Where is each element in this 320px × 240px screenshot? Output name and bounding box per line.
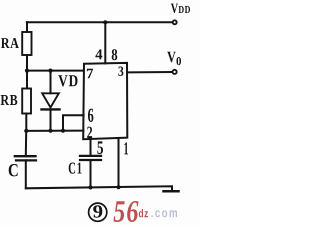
wire RB bottom lead: [25, 114, 27, 131]
pin 2: [87, 127, 92, 138]
figure number 9: [93, 205, 102, 217]
resistor RB body: [22, 89, 31, 114]
diode VD cathode bar: [42, 108, 60, 110]
watermark 56: [114, 201, 139, 222]
label RB: [1, 95, 18, 105]
terminal VDD: [173, 20, 177, 24]
label VDD V: [171, 4, 178, 13]
node junction C1 ground: [88, 185, 92, 189]
wire C top lead: [25, 131, 27, 156]
terminal V0: [173, 70, 177, 74]
op-amp U1 555 timer box: [83, 63, 127, 139]
watermark dz: [139, 209, 148, 217]
wire ground rail: [26, 186, 172, 191]
node junction diode cathode: [48, 129, 52, 133]
label VDD DD: [179, 6, 191, 13]
wire pin1 ground lead: [118, 138, 120, 187]
pin 3: [118, 67, 123, 77]
wire diode bottom lead: [50, 109, 52, 130]
diode VD triangle: [42, 93, 59, 107]
pin 1: [124, 142, 128, 154]
label C: [9, 164, 18, 176]
wire C1 bottom lead: [90, 160, 92, 187]
wire RA top lead: [26, 22, 28, 32]
wire jog to pin6: [63, 115, 84, 131]
wire pin5 lead: [90, 139, 92, 156]
node junction VDD rail: [103, 20, 107, 24]
label V0 0: [177, 57, 182, 65]
wire C bottom lead: [25, 160, 27, 188]
wire RB top lead: [26, 71, 28, 89]
wire VDD top rail: [27, 21, 173, 23]
pin 7: [87, 69, 93, 79]
label C1: [69, 163, 82, 174]
capacitor C1 bottom plate: [80, 159, 101, 161]
figure number circle: [89, 203, 107, 221]
capacitor C bottom plate: [16, 159, 36, 161]
resistor RA body: [22, 32, 31, 55]
pin 5: [97, 141, 103, 154]
capacitor C top plate: [15, 155, 36, 157]
label RA: [1, 38, 19, 48]
node junction RA-RB-pin7: [25, 69, 29, 73]
node junction diode anode: [48, 69, 52, 73]
ground bar: [164, 190, 179, 193]
node junction RB-C-pin2: [24, 129, 28, 133]
pin 8: [112, 49, 118, 60]
capacitor C1 top plate: [80, 155, 101, 157]
wire RA bottom lead: [26, 55, 28, 71]
node junction pin1 ground: [116, 185, 120, 189]
label V0 V: [167, 52, 176, 63]
wire diode top lead: [50, 71, 52, 94]
watermark .com: [152, 210, 178, 217]
wire pin2 trigger: [26, 130, 83, 132]
pin 4: [95, 49, 102, 59]
pin 6: [88, 109, 93, 122]
node junction pin6 jog: [61, 129, 65, 133]
wire pin3 output: [127, 71, 172, 73]
wire pins4-8 to VDD: [104, 22, 106, 63]
label VD: [58, 75, 77, 86]
wire pin7 discharge: [27, 70, 84, 72]
